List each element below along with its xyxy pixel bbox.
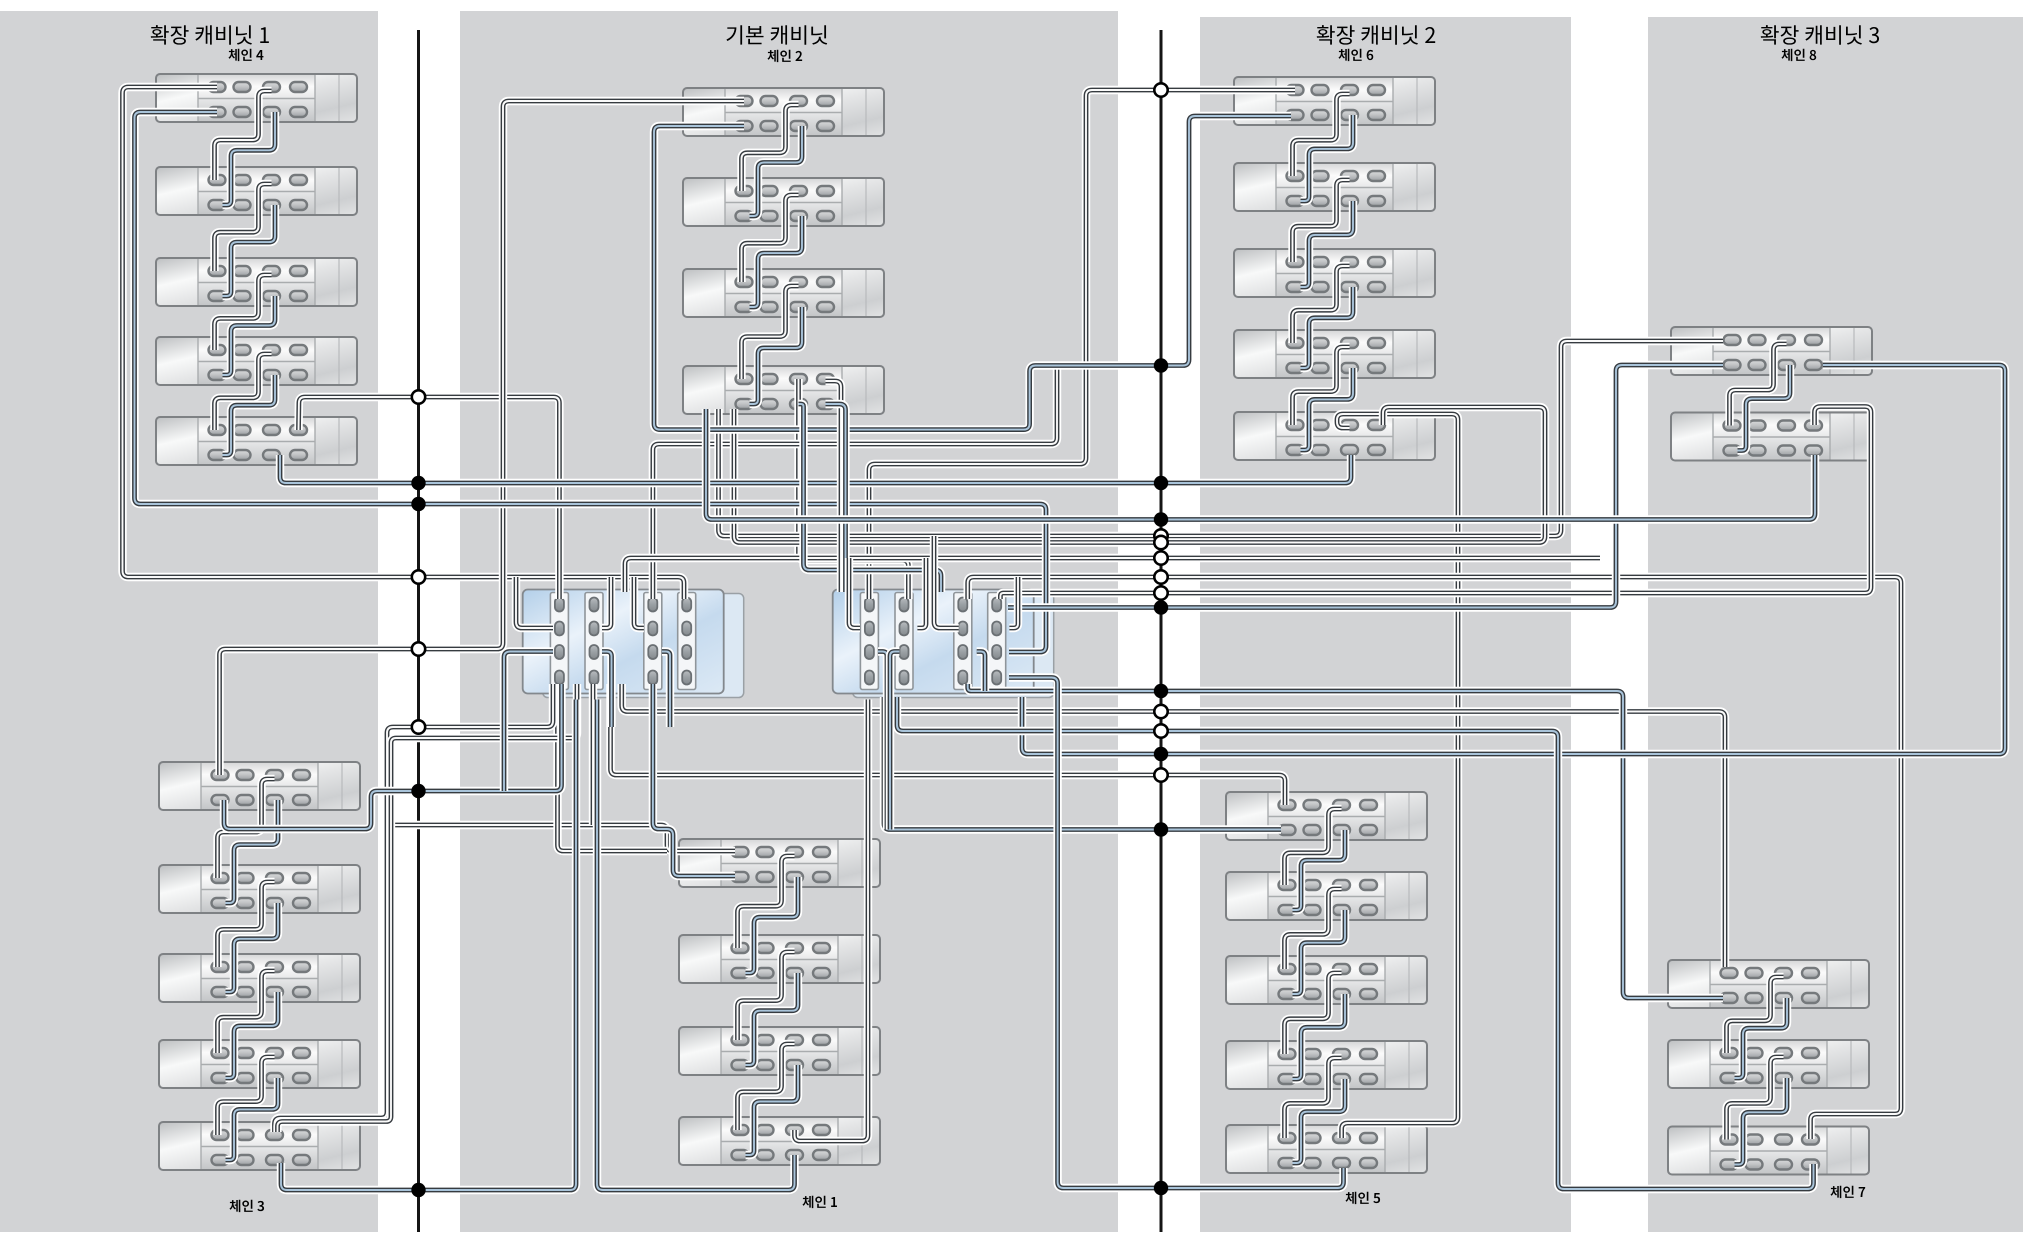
node junction b line1	[411, 476, 425, 490]
wire controller2 to chain7 head blue	[968, 684, 1723, 998]
node crossover f line1	[412, 720, 425, 733]
node crossover e line1	[412, 642, 425, 655]
node crossover a line2	[1154, 83, 1167, 96]
wire P3B shelf2-shelf3 blue link	[1293, 910, 1346, 994]
wire controller1 strip2 port2 hook	[602, 577, 611, 628]
wire controller1 strip2 port3 hook	[602, 652, 612, 728]
wire P3T shelf4-shelf5 white link	[1293, 347, 1350, 425]
disk shelf P2B-S3	[679, 1027, 880, 1075]
cabinet panel: base cabinet	[460, 11, 1118, 1232]
wire chain4 tail to chain6 tail blue	[280, 455, 1351, 483]
wire P1B shelf2-shelf3 blue link	[226, 903, 279, 992]
wire P3T shelf2-shelf3 white link	[1293, 180, 1350, 262]
wire P2B shelf1-shelf2 white link	[738, 856, 795, 948]
wire chain2 spare blue drop	[826, 404, 846, 592]
disk shelf P2T-S1	[683, 88, 884, 136]
wire chain4 exit white via node	[299, 397, 560, 599]
wire P1B shelf3-shelf4 white link	[218, 971, 275, 1053]
label expansion cabinet 3 title	[1761, 25, 1879, 45]
wire P1B shelf2-shelf3 white link	[218, 882, 275, 967]
wire P1T shelf3-shelf4 blue link	[223, 296, 276, 375]
wire P1B shelf1-shelf2 blue link	[226, 800, 279, 903]
wire P1B shelf4-shelf5 blue link	[226, 1078, 279, 1160]
wire controller1 to chain1 head white	[387, 825, 735, 851]
disk shelf P3T-S5	[1234, 412, 1435, 460]
node junction c line2	[1154, 476, 1168, 490]
label chain 1	[802, 1196, 836, 1208]
wire controller2 strip1 port3 hook	[878, 652, 887, 830]
disk shelf P4T-S1	[1671, 327, 1872, 375]
wire middle run y593 white	[1000, 407, 1871, 600]
disk shelf P2B-S2	[679, 935, 880, 983]
wire P3B shelf3-shelf4 white link	[1285, 973, 1342, 1054]
disk shelf P1B-S3	[159, 954, 360, 1002]
disk shelf P4B-S3	[1668, 1127, 1869, 1175]
wire P1T shelf3-shelf4 white link	[215, 275, 272, 350]
disk shelf P2T-S4	[683, 366, 884, 414]
cabinet panel: expansion cabinet 1	[0, 11, 378, 1232]
wire P2B shelf3-shelf4 white link	[738, 1044, 795, 1130]
disk shelf P3B-S3	[1226, 956, 1427, 1004]
disk shelf P4T-S2	[1671, 413, 1872, 461]
node crossover k line2	[1154, 705, 1167, 718]
wire P1T shelf1-shelf2 blue link	[223, 112, 276, 205]
node crossover e2 line2	[1154, 536, 1167, 549]
wire P4B shelf2-shelf3 white link	[1727, 1057, 1784, 1140]
wire P3B shelf4-shelf5 blue link	[1293, 1079, 1346, 1163]
wire P4T shelf1-shelf2 white link	[1730, 344, 1787, 426]
label base cabinet title	[726, 25, 827, 44]
wire P1B shelf1-shelf2 white link	[218, 779, 275, 878]
disk shelf P2T-S2	[683, 178, 884, 226]
wire controller1 strip1 port3 hook	[504, 652, 553, 792]
node crossover l line2	[1154, 724, 1167, 737]
wire chain4 top entry white	[123, 87, 685, 599]
wire controller1 crossover white	[653, 364, 1057, 599]
wire controller2 to chain8 tail blue	[706, 409, 1815, 520]
wire P3B shelf2-shelf3 white link	[1285, 889, 1342, 969]
controller U1 (rear unit)	[543, 594, 744, 698]
wire P1B shelf3-shelf4 blue link	[226, 992, 279, 1078]
wire P1T shelf2-shelf3 white link	[215, 184, 272, 271]
wire P3T shelf3-shelf4 blue link	[1301, 287, 1354, 368]
disk shelf P3B-S1	[1226, 792, 1427, 840]
node junction d line2	[1154, 512, 1168, 526]
disk shelf P1T-S5	[156, 417, 357, 465]
node crossover a line1	[412, 390, 425, 403]
wire controller2 to chain5 tail blue	[1009, 678, 1344, 1189]
wire controller1 to chain1 head blue	[653, 684, 735, 876]
wire P1T shelf4-shelf5 white link	[215, 354, 272, 430]
label chain 7	[1830, 1186, 1865, 1198]
disk shelf P2B-S1	[679, 839, 880, 887]
wire controller2 strip2 port3 hook	[890, 652, 899, 830]
wire P2T shelf2-shelf3 white link	[742, 195, 799, 282]
label chain 4	[228, 49, 263, 61]
wire P2B shelf3-shelf4 blue link	[746, 1065, 799, 1155]
node junction b line2	[1154, 358, 1168, 372]
disk shelf P1T-S2	[156, 167, 357, 215]
node junction g line1	[411, 784, 425, 798]
wire P1T shelf4-shelf5 blue link	[223, 375, 276, 455]
wire P3T shelf2-shelf3 blue link	[1301, 201, 1354, 287]
disk shelf P1T-S3	[156, 258, 357, 306]
disk shelf P1B-S5	[159, 1122, 360, 1170]
disk shelf P1B-S4	[159, 1040, 360, 1088]
wire P3B shelf1-shelf2 white link	[1285, 809, 1342, 885]
wire controller1 to chain1 head white b	[558, 684, 668, 851]
wire controller2 spare run blue	[1022, 365, 2005, 754]
disk shelf P3T-S3	[1234, 249, 1435, 297]
node junction m line2	[1154, 747, 1168, 761]
wire P2T shelf1-shelf2 blue link	[750, 126, 803, 216]
wire P2B shelf2-shelf3 white link	[738, 952, 795, 1040]
wire controller1 to chain3 tail white	[275, 684, 554, 1132]
label chain 3	[229, 1200, 264, 1212]
disk shelf P3T-S4	[1234, 330, 1435, 378]
controller U2 (front unit)	[833, 590, 1034, 694]
wire P4B shelf2-shelf3 blue link	[1735, 1078, 1788, 1165]
disk shelf P1B-S2	[159, 865, 360, 913]
wire P1T shelf2-shelf3 blue link	[223, 205, 276, 296]
wire controller1 strip3 port2 hook	[634, 577, 644, 628]
node crossover g line2	[1154, 570, 1167, 583]
wire controller1 strip1 port2 hook	[516, 577, 553, 628]
wire controller2 strip1 port2 hook	[849, 558, 860, 628]
wire chain2 head to chain6 head blue	[654, 116, 1291, 430]
cabinet boundary line 2	[1160, 30, 1163, 1232]
wire P3T shelf4-shelf5 blue link	[1301, 368, 1354, 450]
disk shelf P1B-S1	[159, 762, 360, 810]
node junction h line1	[411, 1183, 425, 1197]
wire P1B shelf4-shelf5 white link	[218, 1057, 275, 1135]
wire middle run y558 white	[625, 558, 1600, 592]
wire P2T shelf2-shelf3 blue link	[750, 216, 803, 307]
wire chain2 tail to controller2 white	[799, 379, 909, 599]
wire controller1 to chain3 tail white b	[278, 684, 578, 1132]
wire chain2 tail blue	[799, 404, 942, 592]
wire P4B shelf1-shelf2 white link	[1727, 977, 1784, 1053]
wire P2B shelf1-shelf2 blue link	[746, 877, 799, 973]
wire controller2 to chain8 head blue	[1008, 365, 1723, 608]
wire chain7 tail loop blue	[897, 697, 1814, 1189]
wire controller1 strip2 port4 drop white	[589, 684, 597, 825]
wire P4T shelf1-shelf2 blue link	[1738, 365, 1791, 451]
node crossover n line2	[1154, 768, 1167, 781]
label expansion cabinet 2 title	[1317, 25, 1435, 45]
disk shelf P3T-S2	[1234, 163, 1435, 211]
wire controller2 strip4 port2 hook	[1009, 577, 1018, 628]
wire P1T shelf1-shelf2 white link	[215, 91, 272, 180]
wire P3T shelf1-shelf2 blue link	[1301, 115, 1354, 201]
cabinet panel: expansion cabinet 3	[1648, 17, 2023, 1232]
wire controller2 to chain6 white	[869, 90, 1295, 599]
wire middle run y577 white	[968, 577, 1901, 1139]
wire chain4 head to chain5 tail blue	[135, 112, 1047, 652]
disk shelf P1T-S4	[156, 337, 357, 385]
wire controller1 strip3 port3 hook	[662, 652, 670, 728]
disk shelf P3B-S4	[1226, 1041, 1427, 1089]
disk shelf P4B-S1	[1668, 960, 1869, 1008]
node junction j line2	[1154, 684, 1168, 698]
wire controller1 to chain5 head white	[611, 684, 1286, 805]
node crossover d line1	[412, 570, 425, 583]
node junction c line1	[411, 497, 425, 511]
wire P2T shelf3-shelf4 white link	[742, 286, 799, 379]
wire chain2 spare white drop	[826, 381, 842, 592]
controller U1 (front unit)	[523, 590, 724, 694]
wire controller1 to chain7 head white	[622, 684, 1725, 967]
cabinet boundary line 1	[417, 30, 420, 1232]
wire P2T shelf3-shelf4 blue link	[750, 307, 803, 404]
label chain 6	[1338, 49, 1373, 61]
wire chain3 head blue	[224, 684, 562, 829]
label chain 2	[767, 50, 802, 62]
disk shelf P3B-S2	[1226, 872, 1427, 920]
wire P3B shelf3-shelf4 blue link	[1293, 994, 1346, 1079]
disk shelf P1T-S1	[156, 74, 357, 122]
wire P3B shelf1-shelf2 blue link	[1293, 830, 1346, 910]
wire chain2 to chain3 white	[220, 101, 745, 775]
node junction p line2	[1154, 1181, 1168, 1195]
node crossover h line2	[1154, 586, 1167, 599]
wire chain1 tail blue	[597, 700, 795, 1191]
wire controller2 strip3 port3 hook	[977, 652, 985, 692]
wire chain6 to chain5 white column	[1337, 414, 1458, 1138]
wire controller2 strip2 port2 hook	[917, 558, 926, 628]
wire controller2 strip3 port2 hook	[934, 536, 959, 628]
disk shelf P2T-S3	[683, 269, 884, 317]
node junction o line2	[1154, 822, 1168, 836]
node junction i line2	[1154, 600, 1168, 614]
wire P2T shelf1-shelf2 white link	[742, 105, 799, 191]
wire P3T shelf3-shelf4 white link	[1293, 266, 1350, 343]
node crossover e line2	[1154, 529, 1167, 542]
wire controller1 to chain8 head white	[719, 341, 1724, 536]
disk shelf P3T-S1	[1234, 77, 1435, 125]
wire middle run y542 white	[734, 407, 1545, 543]
label chain 8	[1781, 49, 1816, 61]
disk shelf P4B-S2	[1668, 1040, 1869, 1088]
label expansion cabinet 1 title	[151, 25, 269, 45]
node crossover f line2	[1154, 551, 1167, 564]
controller U2 (rear unit)	[853, 594, 1054, 698]
wire P4B shelf1-shelf2 blue link	[1735, 998, 1788, 1078]
label chain 5	[1345, 1192, 1380, 1204]
disk shelf P3B-S5	[1226, 1125, 1427, 1173]
disk shelf P2B-S4	[679, 1117, 880, 1165]
wire chain1 tail white	[795, 700, 869, 1142]
wire P3T shelf1-shelf2 white link	[1293, 94, 1350, 176]
wire controller2 to chain5 head blue	[884, 697, 1281, 830]
wire chain3 tail blue	[281, 700, 576, 1191]
cabinet panel: expansion cabinet 2	[1200, 17, 1571, 1232]
wire P2B shelf2-shelf3 blue link	[746, 973, 799, 1065]
wire P3B shelf4-shelf5 white link	[1285, 1058, 1342, 1138]
